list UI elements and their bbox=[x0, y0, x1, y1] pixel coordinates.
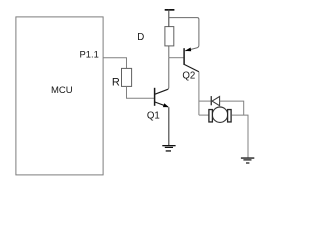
wire Q1 emitter down bbox=[168, 107, 170, 145]
svg-text:P1.1: P1.1 bbox=[80, 49, 99, 60]
ground (Q1 emitter) bbox=[162, 145, 175, 152]
transistor Q1 (NPN) bbox=[155, 88, 169, 107]
MCU U1 block bbox=[16, 17, 103, 175]
wire base node to Q2 base bbox=[169, 57, 184, 59]
resistor D bbox=[165, 27, 174, 46]
wire diode to right node bbox=[220, 101, 244, 115]
wire P1.1 to resistor R bbox=[103, 58, 126, 69]
motor M1 bbox=[209, 107, 231, 122]
transistor Q2 (PNP) bbox=[184, 48, 199, 72]
wire node to diode anode side bbox=[199, 100, 211, 102]
ground (right / motor return) bbox=[241, 157, 254, 163]
diode D1 (flyback) bbox=[211, 96, 220, 106]
svg-text:Q1: Q1 bbox=[147, 110, 160, 121]
svg-text:MCU: MCU bbox=[51, 85, 73, 96]
wire motor right to ground bbox=[232, 115, 248, 157]
svg-text:R: R bbox=[112, 77, 120, 89]
wire left node to motor bbox=[199, 114, 209, 116]
svg-text:D: D bbox=[137, 32, 144, 43]
svg-text:Q2: Q2 bbox=[182, 70, 195, 81]
wire VCC to Q2 emitter bbox=[169, 18, 199, 51]
wire Q1 collector up to base node bbox=[168, 58, 169, 89]
wire Q2 collector down left node bbox=[198, 72, 200, 115]
VCC power symbol bbox=[165, 9, 175, 27]
resistor R bbox=[122, 68, 132, 86]
wire R bottom to Q1 base bbox=[127, 86, 155, 98]
wire resistor D bottom lead bbox=[168, 46, 170, 58]
